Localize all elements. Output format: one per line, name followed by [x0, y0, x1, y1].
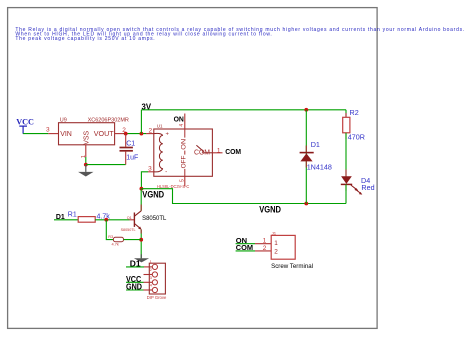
wire D1 label to R1	[54, 219, 78, 221]
svg-text:The peak voltage capability is: The peak voltage capability is 250V at 1…	[15, 36, 155, 42]
resistor R2	[343, 108, 365, 141]
grove connector J2	[147, 259, 167, 300]
wire R1 to base	[95, 219, 129, 221]
wire base to R3	[106, 220, 113, 240]
grove pin2 stub	[144, 274, 153, 276]
wire 3V horizontal	[141, 109, 346, 111]
capacitor C1	[120, 134, 139, 165]
wire VCC to U9 pin3	[23, 133, 48, 135]
wire R2 to D4	[345, 133, 347, 177]
svg-text:1: 1	[217, 147, 221, 154]
svg-text:5: 5	[179, 179, 185, 182]
ground symbol (emitter)	[134, 254, 149, 262]
svg-text:4: 4	[179, 124, 185, 127]
svg-text:1uF: 1uF	[126, 155, 138, 162]
svg-text:VCC: VCC	[16, 117, 34, 126]
svg-text:J1: J1	[272, 231, 277, 236]
svg-text:1: 1	[263, 238, 267, 245]
svg-text:+: +	[166, 131, 170, 137]
wire 3V riser	[140, 110, 142, 134]
svg-text:VGND: VGND	[259, 205, 281, 215]
svg-text:ON: ON	[174, 114, 184, 123]
transistor Q1	[121, 211, 167, 232]
resistor R3 4.7k	[108, 235, 123, 247]
svg-text:COM: COM	[194, 149, 210, 156]
junction VGND right	[304, 202, 308, 206]
svg-text:R1: R1	[68, 211, 77, 218]
relay pin 2	[146, 133, 154, 135]
svg-text:Screw Terminal: Screw Terminal	[271, 263, 313, 270]
wire R2 branch top	[345, 110, 347, 118]
diode D1	[300, 140, 332, 172]
wire VSS to ground	[85, 157, 87, 165]
J1 pin1	[255, 243, 271, 245]
wire collector	[140, 189, 142, 211]
U9 pin 1	[85, 145, 87, 157]
relay pin 4	[184, 114, 186, 130]
svg-text:VSS: VSS	[83, 130, 90, 144]
svg-text:COM: COM	[225, 149, 241, 156]
wire VSS node to C1 bottom	[86, 164, 126, 166]
svg-text:S8050TL: S8050TL	[142, 215, 167, 222]
wire grove pin3	[126, 281, 144, 283]
svg-text:2: 2	[274, 249, 278, 256]
svg-text:-: -	[165, 168, 167, 175]
svg-text:VIN: VIN	[60, 131, 72, 138]
wire grove pin1	[126, 266, 144, 268]
note text	[15, 27, 465, 42]
svg-text:Red: Red	[361, 183, 374, 192]
relay pin 5	[184, 176, 186, 186]
U9 pin 3	[48, 133, 58, 135]
relay coil	[154, 133, 163, 172]
wire grove pin4	[126, 289, 144, 291]
wire emitter down	[140, 230, 142, 259]
wire VGND jog	[141, 189, 346, 204]
svg-text:VGND: VGND	[142, 189, 164, 199]
screw terminal J1	[271, 231, 313, 270]
relay pin 1	[212, 152, 222, 154]
wire D1 branch	[305, 110, 307, 204]
ground symbol (U9)	[78, 165, 93, 177]
svg-text:D1: D1	[311, 140, 320, 149]
svg-text:470R: 470R	[348, 132, 365, 141]
wire D4 to VGND	[345, 184, 347, 203]
svg-text:3: 3	[148, 166, 152, 173]
frame border	[8, 8, 378, 329]
svg-text:R2: R2	[350, 108, 359, 117]
junction VGND left	[140, 187, 144, 191]
LED D4	[341, 170, 375, 195]
grove pin1 stub	[144, 266, 152, 268]
svg-text:U9: U9	[60, 118, 67, 124]
VCC supply symbol	[16, 117, 34, 133]
svg-text:S8050TL: S8050TL	[121, 228, 136, 232]
U9 pin 2	[115, 133, 124, 135]
junction emitter/R3	[139, 238, 143, 242]
svg-text:R3: R3	[108, 235, 113, 239]
relay pin 3	[148, 171, 154, 173]
relay switch	[196, 145, 212, 153]
junction base node	[104, 218, 108, 222]
voltage regulator U9	[59, 118, 129, 145]
junction VOUT/C1	[124, 132, 128, 136]
svg-text:ON: ON	[181, 138, 188, 150]
svg-text:C1: C1	[126, 140, 135, 147]
resistor R1	[68, 211, 110, 222]
svg-text:2: 2	[263, 245, 267, 252]
wire R3 to emitter	[124, 239, 142, 241]
svg-text:VOUT: VOUT	[94, 131, 115, 138]
svg-text:1: 1	[274, 240, 278, 247]
svg-text:DIP Grove: DIP Grove	[147, 295, 167, 300]
svg-text:2: 2	[149, 127, 153, 134]
svg-text:1N4148: 1N4148	[307, 163, 332, 172]
wire pin3 to VGND junction	[141, 172, 148, 189]
svg-text:OFF: OFF	[181, 155, 188, 168]
J1 pin2	[255, 250, 271, 252]
junction VSS node	[84, 163, 88, 167]
svg-text:U1: U1	[157, 123, 163, 128]
relay U1 box	[154, 123, 213, 176]
svg-text:3: 3	[46, 127, 50, 134]
svg-text:XC6206P302MR: XC6206P302MR	[88, 118, 129, 124]
svg-text:4.7k: 4.7k	[112, 242, 119, 247]
svg-text:Q1: Q1	[127, 216, 132, 220]
junction D1 top	[304, 108, 308, 112]
wire VOUT node	[124, 133, 147, 135]
junction 3V riser	[140, 132, 144, 136]
